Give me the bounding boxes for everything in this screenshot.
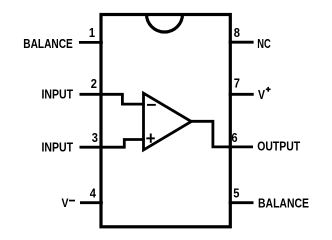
svg-text:NC: NC — [257, 36, 271, 51]
svg-text:V: V — [258, 87, 265, 102]
svg-text:OUTPUT: OUTPUT — [257, 138, 300, 153]
svg-text:INPUT: INPUT — [42, 139, 74, 154]
svg-text:INPUT: INPUT — [42, 86, 74, 101]
svg-text:7: 7 — [234, 76, 240, 91]
svg-text:8: 8 — [234, 25, 240, 40]
svg-text:BALANCE: BALANCE — [23, 36, 73, 51]
svg-text:6: 6 — [231, 130, 237, 145]
svg-text:2: 2 — [91, 76, 97, 91]
svg-text:3: 3 — [92, 130, 98, 145]
svg-text:1: 1 — [89, 25, 95, 40]
svg-text:BALANCE: BALANCE — [258, 196, 309, 211]
svg-text:V: V — [62, 196, 69, 210]
svg-text:4: 4 — [90, 186, 97, 201]
svg-text:5: 5 — [233, 186, 239, 201]
